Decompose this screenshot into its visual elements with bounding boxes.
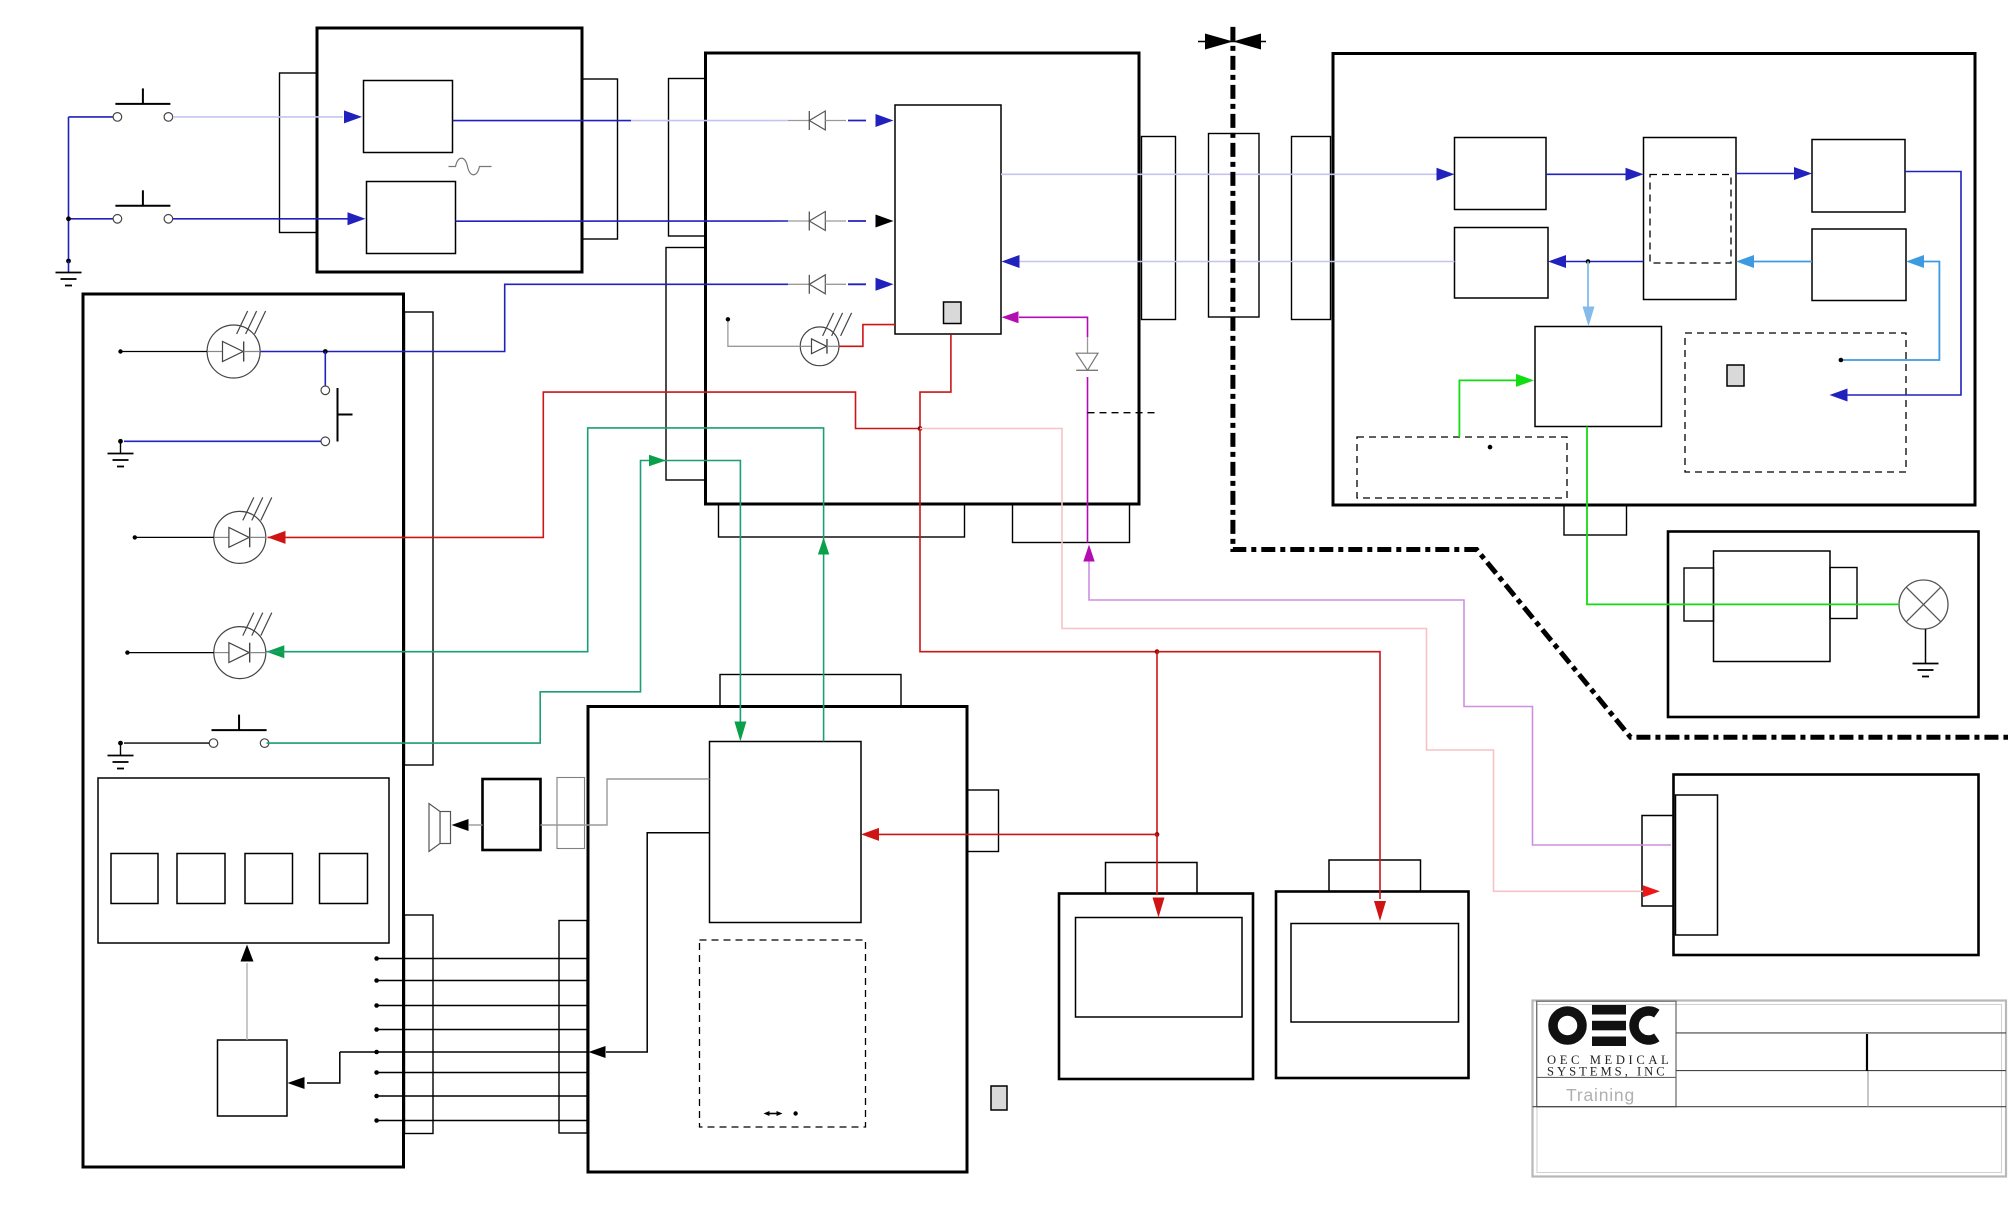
magenta arrow up into tab J6 xyxy=(1083,545,1094,562)
red junction dot 2 xyxy=(1155,649,1160,654)
wire A1 output (navy) xyxy=(453,120,632,122)
module A2 xyxy=(367,182,456,254)
bus junction dot 2 xyxy=(374,978,379,983)
violet wire to box G xyxy=(1089,562,1671,846)
red wire to U3 xyxy=(879,833,1157,835)
arrow into E4 xyxy=(1548,255,1566,268)
connector J12 (box B right lower) xyxy=(405,915,434,1134)
wire ground G2 to S3 xyxy=(124,440,321,442)
key switch K4 xyxy=(320,854,368,904)
arrow into E2 right (light blue) xyxy=(1736,255,1754,268)
connector J8 (cable bulkhead) xyxy=(1209,134,1260,318)
pink wire from junction 1 xyxy=(920,429,1643,892)
gray audio wire amp to speaker xyxy=(469,824,483,826)
arrow into U3 (red) xyxy=(861,828,879,841)
key switch K3 xyxy=(245,854,293,904)
operator panel box B xyxy=(83,294,404,1167)
dashed module E8 xyxy=(1357,437,1567,498)
junction dot on E2-E4 wire xyxy=(1586,259,1591,264)
title block inner frame xyxy=(1537,1005,2002,1173)
gray pad in E7 xyxy=(1727,365,1744,386)
wire to switch S1 xyxy=(69,116,114,118)
arrow into box G tab (pink-red) xyxy=(1643,885,1660,897)
navy wire E2 to E4 xyxy=(1566,261,1644,263)
magenta arrow into U1 xyxy=(1002,311,1019,323)
module E2 xyxy=(1644,138,1737,300)
camera box G xyxy=(1674,775,1979,956)
wire stub to LED DS1 xyxy=(121,351,208,353)
ground G1 xyxy=(56,272,82,274)
red wire DS4 to U1 xyxy=(839,325,895,347)
double-arrow symbol in C2 xyxy=(766,1113,780,1115)
wire stub to ground G1 xyxy=(68,261,70,273)
arrow into LED DS2 (red) xyxy=(268,531,286,544)
bus wire 6 xyxy=(377,1072,588,1074)
lime wire E6 to lamp xyxy=(1587,427,1899,605)
navy wire E1 to E2 xyxy=(1546,173,1626,175)
collimator / lamp box xyxy=(1668,532,1979,718)
panel LED DS1 xyxy=(207,325,260,378)
black wire bus to U2 xyxy=(307,1052,340,1083)
connector J16 (bus, box C left) xyxy=(559,921,587,1134)
arrow into E1 xyxy=(1437,168,1455,181)
bus wire 7 xyxy=(377,1095,588,1097)
red junction dot 3 xyxy=(1155,832,1160,837)
cable clamp bowtie symbol xyxy=(1198,41,1266,43)
wire lamp to ground xyxy=(1925,629,1927,664)
arrow on bus wire 5 at box C xyxy=(589,1046,606,1058)
navy wire E2 to E3 xyxy=(1736,173,1794,175)
arrow into module A1 xyxy=(344,110,362,123)
stub G2 xyxy=(120,441,122,453)
red wire to monitor D1 xyxy=(1156,834,1158,895)
arrow into D2 screen xyxy=(1374,901,1386,921)
diode CR1 (pointing down) xyxy=(1076,353,1098,370)
lavender wire E4 to U1 xyxy=(1019,261,1455,263)
sky-blue drop to E6 xyxy=(1587,262,1589,311)
wire stub to LED DS2 xyxy=(135,536,214,538)
wire S1 to box A (lavender) xyxy=(173,116,343,118)
gray wire to DS4 xyxy=(728,319,800,346)
dot in C2 xyxy=(793,1111,797,1115)
arrow into U1 right (navy) xyxy=(1002,255,1020,268)
bus junction dot 6 xyxy=(374,1070,379,1075)
wire A2 output (navy) xyxy=(456,220,789,222)
pushbutton S3 (vertical) xyxy=(321,386,330,395)
gray pad near box C xyxy=(991,1086,1007,1110)
lamp L1 (circle-X) xyxy=(1899,580,1948,629)
panel LED DS3 xyxy=(214,627,266,679)
OEC logo E xyxy=(1592,1005,1626,1015)
junction dot ground feed xyxy=(66,259,71,264)
T1 left tab xyxy=(1684,568,1714,621)
svg-text:SYSTEMS, INC: SYSTEMS, INC xyxy=(1547,1065,1668,1079)
pushbutton S4 xyxy=(209,739,218,748)
camera control box E xyxy=(1333,54,1975,506)
connector J5 (box H bottom left tab) xyxy=(719,504,965,537)
lavender wire U1 to E1 xyxy=(1001,173,1437,175)
bus junction dot 5 xyxy=(374,1050,379,1055)
arrow at E7 (navy left) xyxy=(1830,389,1848,402)
dashed sub-module inside E2 xyxy=(1650,175,1731,264)
T1 right tab xyxy=(1830,568,1857,619)
arrow into speaker xyxy=(452,819,469,831)
monitor D2 screen xyxy=(1291,924,1459,1023)
speaker SP1 xyxy=(440,812,451,844)
teal wire DS3 to U3 xyxy=(266,428,823,742)
module E1 xyxy=(1455,138,1547,210)
dot in E8 xyxy=(1488,445,1493,450)
monitor D2 xyxy=(1276,892,1469,1079)
AC squiggle symbol xyxy=(449,158,492,175)
magenta wire from U1 xyxy=(1019,317,1088,337)
arrow into E2 xyxy=(1626,168,1644,181)
connector J9 xyxy=(1292,137,1331,320)
arrow into LED DS3 (green) xyxy=(266,645,284,658)
gray audio wire amp to U3 xyxy=(541,779,710,825)
processor U3 in box C xyxy=(710,742,862,923)
dashed module C2 xyxy=(700,940,866,1127)
bus junction dot 3 xyxy=(374,1003,379,1008)
bus junction dot 4 xyxy=(374,1027,379,1032)
magenta wire below CR1 xyxy=(1087,377,1089,543)
dashed level line xyxy=(1088,412,1156,414)
title row line 1 xyxy=(1676,1032,2006,1034)
title col tick (light) xyxy=(1867,1071,1869,1107)
connector J17 inside box G xyxy=(1676,795,1718,935)
connector J3 on box H left (upper) xyxy=(669,79,706,237)
wire LED1 net to opto3 (navy) xyxy=(260,284,788,351)
bus wire 2 xyxy=(377,980,588,982)
panel LED DS2 xyxy=(214,511,266,563)
module E3 xyxy=(1812,140,1905,213)
dot at DS3 stub xyxy=(125,650,129,654)
green arrow down into U3 xyxy=(734,722,746,742)
arrow into E6 top (sky) xyxy=(1583,307,1595,327)
workstation box C xyxy=(588,707,967,1173)
cable shield boundary (dash-dot) xyxy=(1233,27,2008,737)
dot at DS1 stub xyxy=(118,349,122,353)
lime wire E8 to E6 xyxy=(1459,380,1516,437)
junction dot S2 feed xyxy=(66,216,71,221)
wire S2 to box A xyxy=(173,218,348,220)
lamp transformer T1 xyxy=(1714,551,1831,662)
connector J14 (box C right tab) xyxy=(967,790,999,852)
arrow into U2 xyxy=(288,1077,305,1089)
arrow into module A2 xyxy=(348,212,366,225)
pushbutton S2 xyxy=(113,215,122,224)
pushbutton S1 xyxy=(113,113,122,122)
module E5 xyxy=(1812,229,1906,301)
red junction dot 1 xyxy=(918,426,923,431)
light-blue wire E5 to E2 xyxy=(1753,261,1812,263)
connector J15 (audio, box C left) xyxy=(557,778,585,849)
monitor D2 top tab xyxy=(1329,860,1421,892)
red wire down to junction 3 xyxy=(1156,652,1158,835)
red wire U1 bottom jog xyxy=(920,334,951,428)
controller U1 (tall block in box H) xyxy=(895,105,1001,334)
bus junction dot 8 xyxy=(374,1118,379,1123)
title row line 2 xyxy=(1676,1070,2006,1072)
connector J11 (box B right upper) xyxy=(405,312,434,765)
arrow into keypad xyxy=(241,945,254,962)
chassis box A (power switch interface) xyxy=(317,28,582,272)
module E6 xyxy=(1535,327,1662,427)
module E4 xyxy=(1455,228,1549,299)
bus wire 3 xyxy=(377,1005,588,1007)
dot at DS4 gray wire xyxy=(726,317,730,321)
logo cell xyxy=(1537,1001,1676,1106)
connector J10 (box E bottom tab) xyxy=(1564,505,1627,535)
bus wire 5 xyxy=(340,1051,588,1053)
connector J4 on box H left (lower) xyxy=(666,248,705,481)
bus junction dot 1 xyxy=(374,956,379,961)
dot at DS2 stub xyxy=(133,535,137,539)
title block outer frame xyxy=(1533,1001,2007,1177)
black wire U3 to bus xyxy=(606,833,710,1052)
red wire trunk down xyxy=(920,429,1157,652)
audio amplifier box xyxy=(483,779,541,850)
wire down to switch S3 xyxy=(324,352,326,387)
green wire S4 to U3 xyxy=(267,461,741,744)
opto-isolator OP1 xyxy=(788,120,809,122)
arrow into D1 screen xyxy=(1153,898,1165,918)
gray pad on U1 xyxy=(944,302,962,324)
wire to switch S2 xyxy=(69,218,114,220)
red wire DS2 branch xyxy=(268,392,921,537)
monitor D1 xyxy=(1059,894,1253,1080)
dashed module E7 xyxy=(1685,333,1906,472)
connector J18 (box G left tab) xyxy=(1642,816,1674,907)
wire stub to LED DS3 xyxy=(127,652,213,654)
wire ground G3 to S4 xyxy=(124,742,209,744)
arrow into E6 left (lime) xyxy=(1516,374,1534,387)
bus junction dot 7 xyxy=(374,1094,379,1099)
connector J13 (box C top tab) xyxy=(720,675,901,707)
OEC logo O xyxy=(1553,1011,1582,1040)
wire left vertical feed xyxy=(68,117,70,261)
dot at G2 xyxy=(118,439,123,444)
OEC logo C xyxy=(1634,1011,1657,1040)
gray wire U2 to keypad xyxy=(246,963,248,1040)
red wire to monitor D2 xyxy=(1157,652,1380,899)
module A1 xyxy=(364,81,453,153)
main control box H xyxy=(706,53,1140,504)
monitor D1 screen xyxy=(1076,918,1243,1018)
bus wire 8 xyxy=(377,1120,588,1122)
connector J6 (box H bottom right tab) xyxy=(1013,504,1130,543)
key switch K2 xyxy=(177,854,225,904)
gray stub above diode CR1 xyxy=(1087,337,1089,353)
connector J1 left of box A xyxy=(280,73,317,233)
light-blue wire loop to E5 xyxy=(1841,262,1940,361)
junction dot in E7 xyxy=(1839,358,1844,363)
green arrow at connector J4 xyxy=(649,455,666,466)
green arrow up into tab J5 xyxy=(818,538,829,555)
wire A1 to opto1 (lavender) xyxy=(631,120,788,122)
keypad processor U2 xyxy=(218,1040,288,1116)
stub G3 xyxy=(120,743,122,755)
ground G3 xyxy=(108,755,134,757)
junction dot DS1 net xyxy=(323,349,328,354)
opto-isolator OP2 xyxy=(788,220,809,222)
ground G2 xyxy=(108,453,134,455)
title row line 3 (full width) xyxy=(1533,1106,2007,1108)
connector J2 right of box A xyxy=(582,79,618,239)
ground under lamp xyxy=(1913,663,1939,665)
bus wire 4 xyxy=(377,1029,588,1031)
dot at G3 xyxy=(118,741,123,746)
svg-text:Training: Training xyxy=(1566,1085,1635,1105)
navy wire E3 loopback xyxy=(1847,172,1961,396)
arrow into E5 right (light blue) xyxy=(1906,255,1924,268)
arrow into E3 xyxy=(1794,167,1812,180)
logo cell divider xyxy=(1537,1076,1676,1078)
bus wire 1 xyxy=(377,958,588,960)
connector J7 xyxy=(1142,137,1176,320)
key switch K1 xyxy=(111,854,158,904)
keypad block xyxy=(98,778,389,943)
title col tick (dark) xyxy=(1866,1034,1868,1071)
status LED DS4 (in box H) xyxy=(800,327,839,366)
opto-isolator OP3 xyxy=(788,283,809,285)
monitor D1 top tab xyxy=(1106,863,1198,894)
